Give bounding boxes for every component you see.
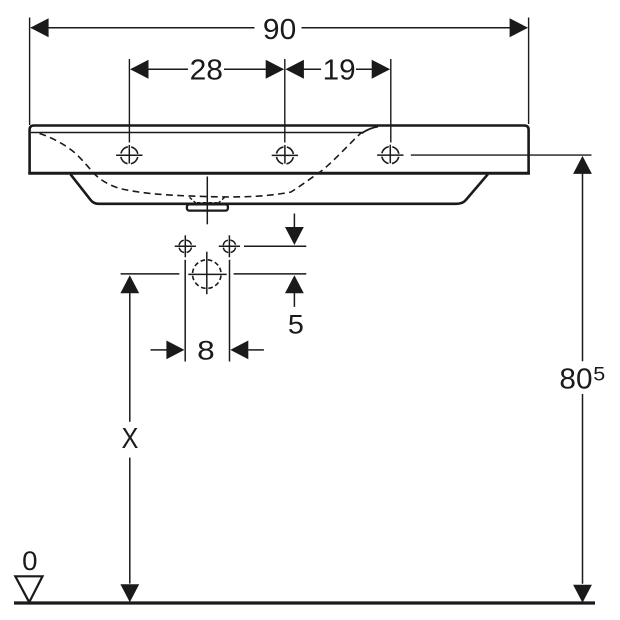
- faucet hole 3: [377, 145, 403, 164]
- basin upper body outline: [30, 126, 529, 175]
- reference line hole 3 to 80.5 dimension: [411, 154, 592, 156]
- dimension 5 / X lower reference line: [121, 273, 180, 275]
- basin deck inner line: [31, 132, 364, 134]
- drain hidden cone left: [190, 197, 196, 203]
- large hole dashed circle: [188, 252, 226, 295]
- dimension 5 upper arrow tail: [293, 214, 295, 229]
- dimension 19 arrow left: [286, 60, 304, 79]
- dimension 28 extension line left: [128, 59, 130, 143]
- dimension 80.5 arrow down: [573, 585, 592, 603]
- dimension 28 line: [131, 68, 188, 70]
- dimension 8 left tail: [151, 349, 167, 351]
- dimension 8 right tail: [248, 349, 264, 351]
- datum triangle: [15, 576, 42, 602]
- dimension 8 extension line right: [229, 260, 231, 362]
- svg-text:8: 8: [197, 336, 215, 366]
- dimension 19 extension line right: [390, 59, 392, 143]
- svg-text:5: 5: [288, 310, 304, 340]
- drain flange: [187, 204, 228, 210]
- svg-text:5: 5: [593, 364, 605, 386]
- dimension 5 upper reference line: [244, 245, 306, 247]
- basin lower body outline: [71, 174, 488, 204]
- drain center line: [206, 177, 208, 225]
- dimension 19 arrow right: [372, 60, 390, 79]
- dimension 28/19 shared extension line middle: [284, 59, 286, 143]
- dimension 80.5 line lower segment: [582, 394, 584, 584]
- dimension X arrow down: [120, 584, 139, 602]
- dimension 90 extension line left: [29, 18, 31, 126]
- mounting hole right: [219, 235, 240, 257]
- svg-text:80: 80: [559, 364, 592, 396]
- bowl hidden curve: [40, 133, 362, 197]
- svg-text:90: 90: [263, 14, 296, 46]
- bowl curve solid fillet: [362, 127, 379, 134]
- drain hidden cone right: [218, 197, 224, 203]
- dimension 90 line: [31, 27, 255, 29]
- dimension 19 line: [287, 68, 322, 70]
- dimension 8 arrow right (points left): [230, 341, 248, 360]
- dimension 80.5 line upper segment: [582, 173, 584, 361]
- dimension 8 arrow left (points right): [166, 341, 184, 360]
- mounting hole left: [175, 235, 196, 257]
- dimension 28 arrow right: [266, 60, 284, 79]
- svg-text:19: 19: [323, 54, 356, 86]
- basin upper body bottom edge: [28, 172, 530, 175]
- dimension 5 lower arrow (up): [285, 275, 304, 293]
- svg-text:0: 0: [22, 546, 37, 576]
- ground line: [14, 601, 595, 604]
- dimension 28 arrow left: [130, 60, 148, 79]
- dimension 90 extension line right: [528, 18, 530, 125]
- dimension X arrow up: [120, 275, 139, 293]
- dimension 5 lower arrow tail: [293, 293, 295, 307]
- svg-text:X: X: [121, 423, 138, 455]
- dimension 80.5 arrow up: [573, 156, 592, 174]
- svg-text:28: 28: [190, 54, 223, 86]
- faucet hole 1: [116, 145, 142, 164]
- dimension X line upper segment: [129, 293, 131, 422]
- dimension 5 upper arrow (down): [285, 227, 304, 245]
- faucet hole 2: [272, 145, 298, 164]
- dimension X line lower segment: [129, 458, 131, 584]
- dimension 8 extension line left: [184, 260, 186, 362]
- dimension 90 arrow right: [510, 18, 528, 37]
- dimension 90 arrow left: [30, 18, 48, 37]
- drain hidden opening line: [197, 202, 218, 204]
